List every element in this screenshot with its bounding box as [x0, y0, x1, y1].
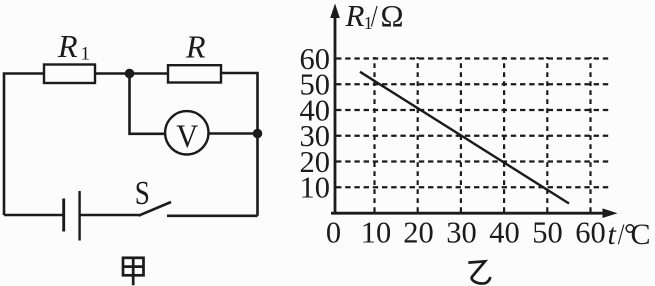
svg-text:R: R: [345, 0, 365, 33]
svg-text:10: 10: [300, 171, 331, 205]
svg-text:R: R: [57, 28, 78, 64]
svg-text:Ω: Ω: [381, 0, 404, 33]
svg-text:60: 60: [575, 216, 606, 250]
svg-text:V: V: [176, 118, 198, 154]
svg-text:/: /: [371, 0, 378, 34]
svg-text:R: R: [185, 28, 206, 64]
svg-text:1: 1: [81, 44, 91, 65]
svg-text:10: 10: [361, 216, 392, 250]
svg-text:t: t: [608, 218, 617, 251]
svg-text:50: 50: [532, 216, 563, 250]
svg-text:S: S: [135, 174, 150, 212]
svg-text:0: 0: [326, 216, 341, 250]
svg-text:40: 40: [489, 216, 520, 250]
svg-text:C: C: [631, 218, 651, 251]
svg-text:30: 30: [446, 216, 477, 250]
svg-text:20: 20: [403, 216, 434, 250]
